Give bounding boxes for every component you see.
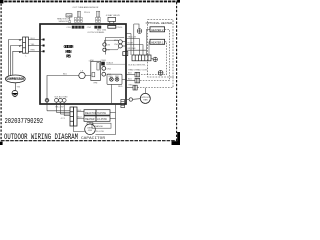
svg-text:SENSOR: SENSOR xyxy=(59,21,69,23)
svg-text:HEATER 2: HEATER 2 xyxy=(151,28,164,32)
wire W down to compressor xyxy=(13,51,23,75)
capacitor top stubs xyxy=(87,122,93,124)
connector CN2 bodies (cluster B) xyxy=(94,26,101,29)
wire PCB to plug row2 xyxy=(126,80,135,82)
terminal circle pair C1 xyxy=(102,67,106,71)
wire block to boxes row1 xyxy=(77,111,84,113)
svg-text:BLK BLU RED: BLK BLU RED xyxy=(55,96,69,98)
wire reactor box to PCB edge xyxy=(122,78,126,80)
connector CN-UVW body xyxy=(23,37,29,53)
wires stepping into terminal block xyxy=(47,110,70,112)
heater box HEATER 1 xyxy=(150,39,165,44)
svg-text:LO-POW: LO-POW xyxy=(97,118,107,121)
border frame dashed xyxy=(0,0,180,141)
wire PCB to heater strip 2 xyxy=(126,45,143,55)
svg-text:OUT.TUBE AMB.SENSOR: OUT.TUBE AMB.SENSOR xyxy=(73,6,99,9)
wire PCB to fan terminal xyxy=(126,99,129,101)
earth screw circle mid xyxy=(153,57,157,61)
svg-text:CN1: CN1 xyxy=(66,27,71,29)
striped plug on PCB bottom edge xyxy=(121,99,125,107)
4-way valve coil box xyxy=(108,17,116,21)
svg-text:RED: RED xyxy=(31,50,36,52)
note box row1 xyxy=(84,110,110,115)
terminal circle T2 xyxy=(103,48,106,51)
wire xyxy=(56,111,70,113)
wire U to PCB xyxy=(28,39,43,41)
earth screw circle low xyxy=(158,70,163,75)
svg-text:BLU: BLU xyxy=(31,38,36,40)
note box row3 xyxy=(92,123,111,128)
svg-text:CN10: CN10 xyxy=(117,27,123,29)
earth terminal circle (diamond) xyxy=(45,98,49,102)
dark block connector CN08 xyxy=(101,62,105,66)
svg-text:BLU: BLU xyxy=(78,117,82,119)
svg-text:OUTDOOR AMB.: OUTDOOR AMB. xyxy=(87,31,104,34)
svg-text:RED: RED xyxy=(118,86,123,88)
inner rect of box xyxy=(92,72,95,76)
svg-text:PLUG: PLUG xyxy=(84,12,90,14)
stub heater2 left xyxy=(146,29,150,50)
wire strip to screw xyxy=(151,58,153,60)
svg-text:BLUE: BLUE xyxy=(128,43,134,45)
wire xyxy=(64,115,70,117)
stub row2 to return wire xyxy=(110,118,116,120)
svg-text:OUTDOOR WIRING DIAGRAM: OUTDOOR WIRING DIAGRAM xyxy=(4,134,78,142)
svg-text:BLACK: BLACK xyxy=(107,61,114,64)
wire V to PCB xyxy=(28,45,43,47)
svg-text:YELLOW: YELLOW xyxy=(55,107,63,109)
connector on PCB right edge xyxy=(123,52,128,56)
wire riser B to strip xyxy=(133,24,135,55)
svg-text:FAN: FAN xyxy=(144,98,148,101)
svg-text:RED: RED xyxy=(115,76,120,78)
svg-text:YELLOW: YELLOW xyxy=(95,131,104,133)
svg-text:BLU: BLU xyxy=(63,74,68,76)
wire block bottom to capacitor xyxy=(74,126,85,132)
wire xyxy=(60,113,70,115)
outdoor main PCB box xyxy=(40,24,126,104)
svg-text:Y/G: Y/G xyxy=(17,86,21,88)
wire relay to PCB edge xyxy=(122,40,126,42)
heater plug row3 xyxy=(133,85,137,90)
svg-text:OPTIONAL HEATER: OPTIONAL HEATER xyxy=(146,21,173,25)
svg-text:ON: ON xyxy=(107,44,111,46)
note box row2 xyxy=(84,116,110,121)
return wire from boxes to capacitor xyxy=(96,105,116,135)
terminal circle N xyxy=(55,98,59,102)
svg-text:COMPRESSOR: COMPRESSOR xyxy=(7,78,25,82)
svg-text:HEATER: HEATER xyxy=(85,118,95,121)
wire terminal to fan xyxy=(133,98,141,101)
svg-text:BLU: BLU xyxy=(128,79,132,81)
wire TUBE box to pin xyxy=(69,17,71,21)
wire BLU horizontal to inline terminal xyxy=(47,76,91,99)
wire U down to compressor xyxy=(9,40,23,77)
stub heater1 left xyxy=(149,42,150,55)
wire from T2 to relay xyxy=(106,48,119,50)
heater plug row1 xyxy=(135,72,140,77)
wire from T1 up to relay xyxy=(105,40,119,43)
relay K1 contact circles xyxy=(118,40,122,48)
svg-text:CN2: CN2 xyxy=(87,27,92,29)
svg-text:4-WAY VALVE: 4-WAY VALVE xyxy=(106,14,121,17)
optional heater dashed enclosure xyxy=(148,20,173,77)
wire PCB to heater strip 1 xyxy=(126,39,140,55)
wire PCB stub to riser xyxy=(127,33,132,35)
reactor plug box xyxy=(107,74,122,84)
heater plug row2 xyxy=(135,78,140,83)
X-terminal L2 xyxy=(115,77,119,81)
wire PCB to plug row1 xyxy=(126,74,135,76)
stub row1 to return wire xyxy=(110,111,116,113)
pin header rows (cluster A) xyxy=(74,17,82,22)
connector CN1 bodies below PCB edge (cluster A) xyxy=(72,26,84,29)
wire PCB to heater strip 3 xyxy=(126,50,146,55)
wire hook to earth screw xyxy=(134,24,139,29)
wire terminal N down xyxy=(55,102,57,112)
label: HEAT EXCH. SENSOR text xyxy=(57,17,70,22)
wire riser to strip xyxy=(130,34,132,56)
svg-text:IPM: IPM xyxy=(94,82,98,84)
terminal circle T1 xyxy=(103,43,106,46)
svg-text:HI-POW: HI-POW xyxy=(97,112,107,115)
svg-text:REACTOR: REACTOR xyxy=(85,112,97,115)
svg-text:YELLOW: YELLOW xyxy=(128,37,136,39)
node dot W xyxy=(43,50,45,52)
inline circle terminal LS xyxy=(79,72,85,78)
connector CN10 (4-way valve) xyxy=(108,25,116,28)
sensor probe B1 xyxy=(96,11,99,17)
svg-text:HEATER 1: HEATER 1 xyxy=(151,40,164,44)
svg-text:CAPACITOR: CAPACITOR xyxy=(81,137,105,141)
node dot V xyxy=(43,45,45,47)
terminal circle 2 xyxy=(62,98,66,102)
svg-text:RED: RED xyxy=(129,84,134,86)
dashed wire heater2 loop xyxy=(140,29,170,80)
wire valve to connector xyxy=(109,21,111,25)
heater box HEATER 2 xyxy=(150,27,165,32)
border corner blobs xyxy=(0,0,3,3)
svg-text:CN6: CN6 xyxy=(114,44,118,46)
capacitor C1 xyxy=(85,124,96,135)
wire fan top up xyxy=(144,88,146,93)
wire xyxy=(113,21,115,25)
dashed wire outer loop xyxy=(137,77,173,88)
svg-text:BLK BLU BRN YEL: BLK BLU BRN YEL xyxy=(128,64,146,66)
terminal block XT1 xyxy=(70,107,77,126)
label: OUTDOOR MAIN PCB xyxy=(64,45,74,59)
wire V down to compressor xyxy=(11,46,23,76)
wire terminal 2 down xyxy=(63,102,65,115)
fan wire terminal circle xyxy=(129,98,132,101)
terminal circle C2 xyxy=(102,72,106,76)
svg-text:RED: RED xyxy=(109,76,114,78)
pin header rows (cluster B) xyxy=(95,17,100,22)
wire PCB to plug row3 xyxy=(126,87,133,89)
sensor plug box S1 xyxy=(66,14,72,17)
wire xyxy=(122,45,126,47)
X-terminal L1 xyxy=(110,77,114,81)
svg-text:202037790292: 202037790292 xyxy=(5,118,44,126)
outdoor fan motor M2 xyxy=(140,93,150,103)
inner tall rect xyxy=(97,63,99,71)
transformer box T xyxy=(91,61,101,80)
svg-text:W: W xyxy=(19,50,22,54)
sub-board outline inside PCB xyxy=(106,38,125,55)
svg-text:BLK: BLK xyxy=(78,110,82,112)
wire terminal 1 down xyxy=(59,102,61,114)
pin square xyxy=(69,21,71,23)
svg-text:450V: 450V xyxy=(88,130,93,132)
node dot U xyxy=(43,39,45,41)
wire from L1 down to PCB bottom xyxy=(110,84,112,103)
heater connector strip xyxy=(132,55,151,61)
terminal circle 1 xyxy=(59,98,63,102)
svg-text:BLK: BLK xyxy=(128,73,132,75)
earth screw circle top xyxy=(137,29,142,34)
wire thin to PCB edge xyxy=(106,63,125,65)
svg-text:BLU CN4: BLU CN4 xyxy=(97,30,107,32)
wire W to PCB xyxy=(28,50,43,52)
wire compressor to ground xyxy=(14,83,16,91)
svg-text:BROWN: BROWN xyxy=(128,48,136,50)
svg-text:HEAT1 HEAT2 COM: HEAT1 HEAT2 COM xyxy=(128,68,147,71)
wire earth down xyxy=(46,102,48,111)
svg-text:PCB: PCB xyxy=(66,54,71,59)
wire block to boxes row2 xyxy=(77,117,84,119)
ground (earth in circle) xyxy=(12,90,18,96)
sensor probe A1 xyxy=(78,11,81,17)
dashed wire heater1 loop xyxy=(140,42,167,75)
compressor M1 xyxy=(5,75,25,83)
